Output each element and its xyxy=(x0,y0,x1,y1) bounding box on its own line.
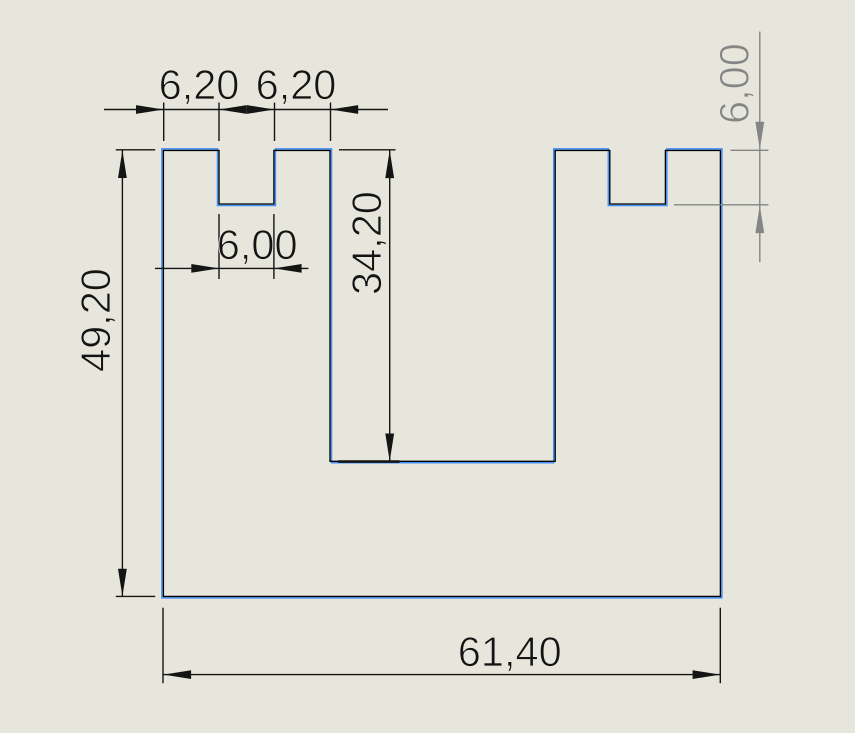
dimension 34,20 : bottom extension line overlapping cavity edge xyxy=(338,460,400,463)
svg-text:6,00: 6,00 xyxy=(711,43,758,124)
dimension 6,00 (notch width) : extension lines xyxy=(219,214,274,279)
dimension 6,00 : arrowheads xyxy=(191,264,301,273)
svg-text:6,00: 6,00 xyxy=(217,221,298,268)
part outline sketch highlight (blue loop) xyxy=(162,149,722,598)
dimension 34,20 (cavity depth) : top extension line xyxy=(339,149,396,151)
dimension 61,40 : dimension line xyxy=(163,674,720,676)
gray dimension 6,00 : arrowheads xyxy=(755,122,764,233)
dimension 6,00 (right notch depth, gray) : extension lines xyxy=(674,150,769,205)
dimension 6,00 : dimension line xyxy=(155,267,308,269)
dimension 49,20 (left) : extension lines xyxy=(116,150,155,597)
svg-text:34,20: 34,20 xyxy=(343,191,390,295)
dimension 49,20 : dimension line xyxy=(121,150,123,596)
part outline model edges (black loop) xyxy=(163,150,720,596)
gray dimension 6,00 : dimension line xyxy=(759,32,761,263)
dimension 61,40 : arrowheads xyxy=(163,670,720,679)
dimension 6,20 / 6,20 (top) : extension lines xyxy=(164,103,331,142)
dimension 34,20 : dimension line xyxy=(389,150,391,461)
svg-text:6,20: 6,20 xyxy=(256,61,337,108)
svg-text:61,40: 61,40 xyxy=(458,628,562,675)
dimension 6,20 / 6,20 (top) : arrowheads xyxy=(136,105,358,114)
svg-text:49,20: 49,20 xyxy=(72,268,119,372)
dimension 6,20 / 6,20 (top) : dimension line xyxy=(104,109,388,111)
dimension 49,20 : arrowheads xyxy=(118,150,127,596)
svg-text:6,20: 6,20 xyxy=(159,61,240,108)
dimension 34,20 : arrowheads xyxy=(385,150,394,461)
dimension 61,40 (bottom) : extension lines xyxy=(163,608,720,684)
